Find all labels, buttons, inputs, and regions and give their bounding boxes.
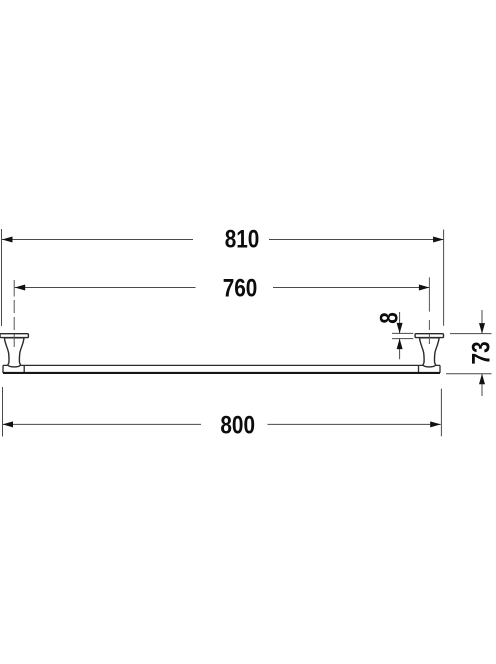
svg-text:800: 800 [220, 410, 255, 438]
svg-text:810: 810 [225, 224, 260, 252]
svg-text:760: 760 [223, 273, 258, 301]
svg-text:8: 8 [375, 312, 403, 324]
svg-text:73: 73 [467, 341, 495, 364]
